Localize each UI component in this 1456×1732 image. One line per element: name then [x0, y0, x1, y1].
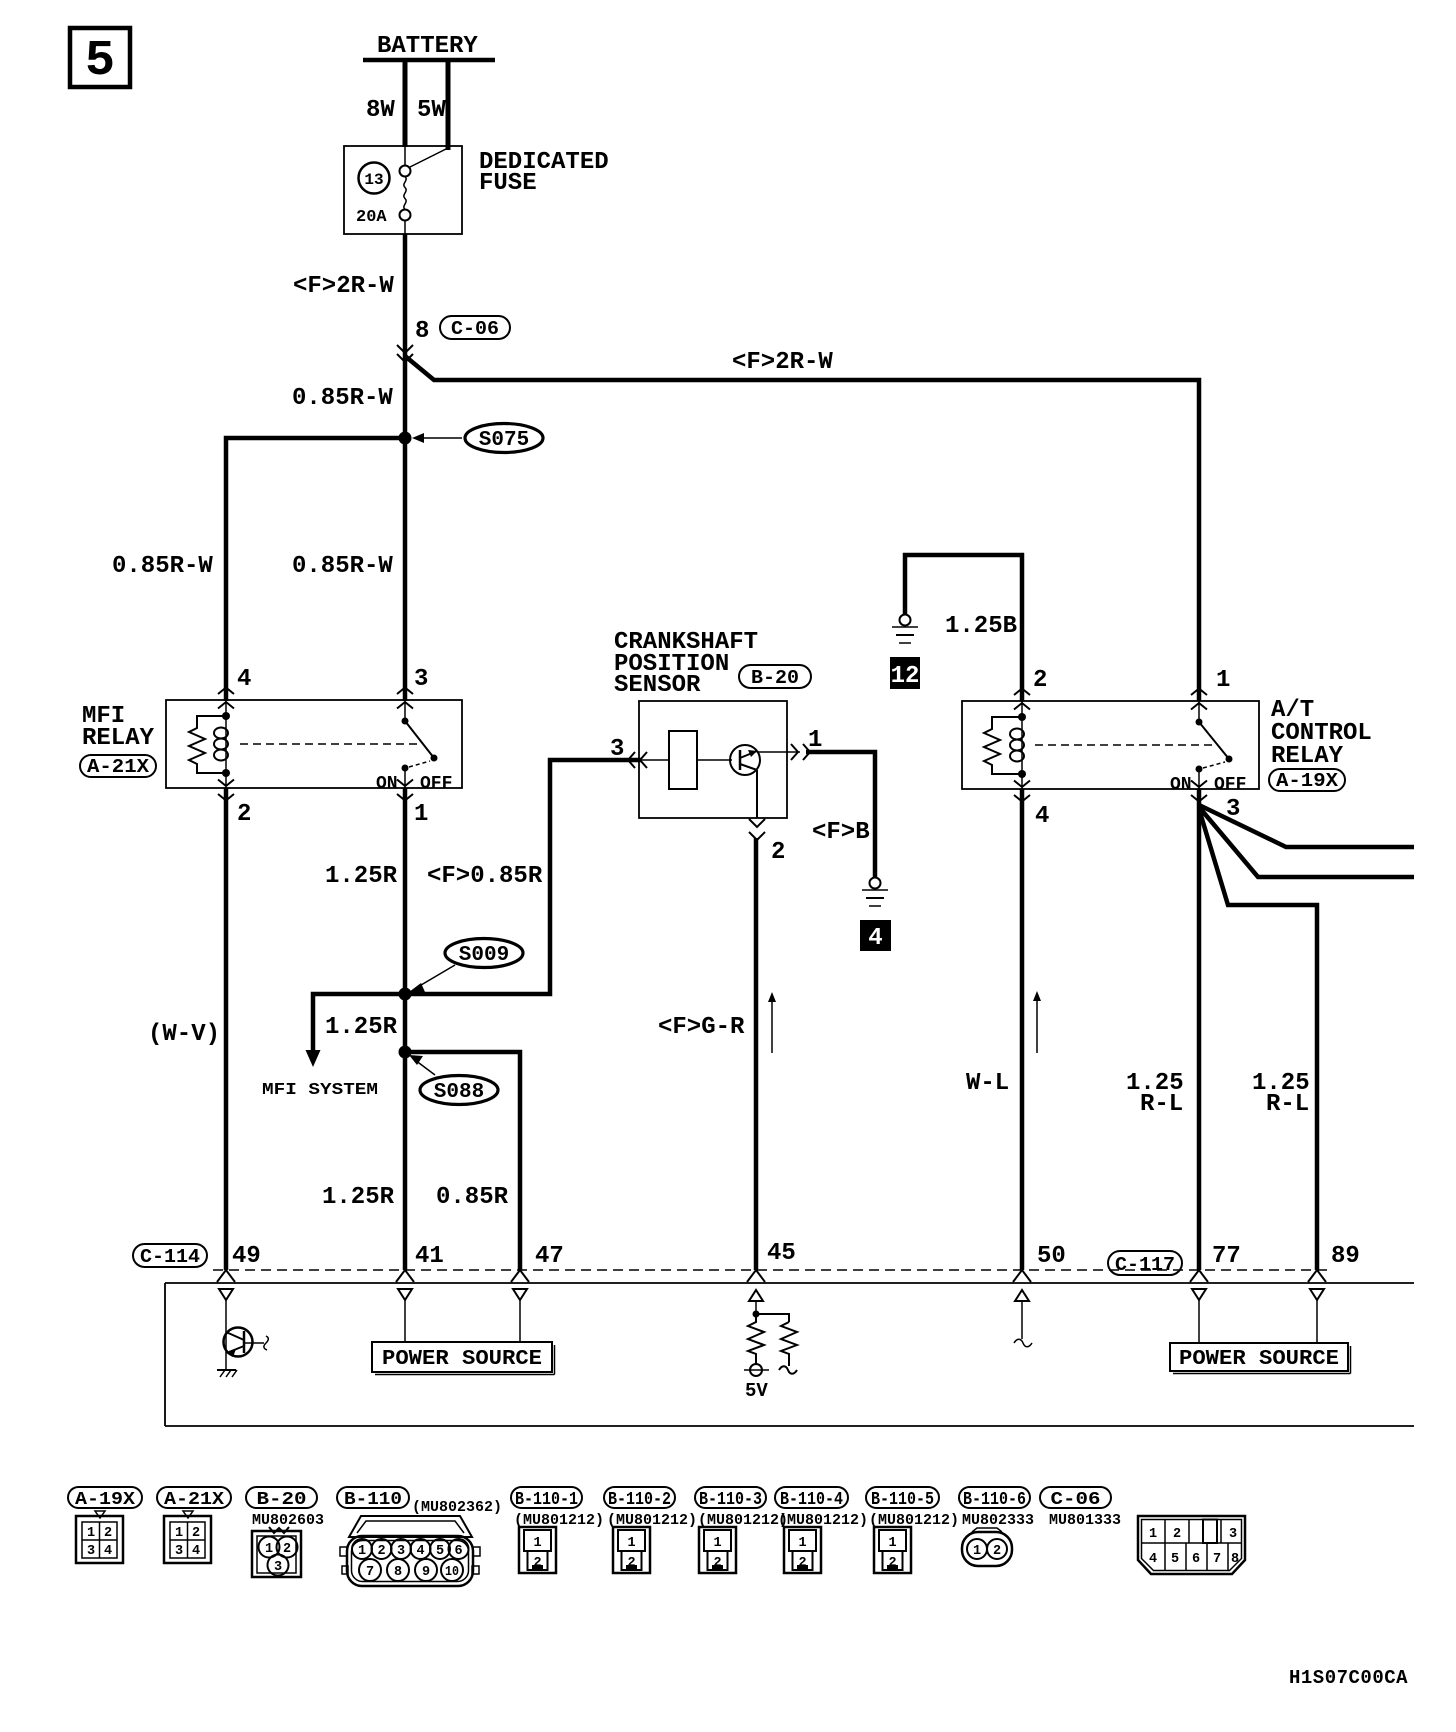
svg-text:B-110-4: B-110-4	[780, 1490, 843, 1510]
svg-text:4: 4	[868, 925, 882, 952]
ECU pin 47	[511, 1243, 564, 1282]
svg-text:3: 3	[274, 1560, 282, 1575]
wire 0.85R-W below branch	[292, 385, 393, 412]
ECU power source block left	[372, 1300, 555, 1375]
wire A/T relay pin 2 to 1.25B	[1020, 553, 1025, 701]
label MU802333	[962, 1512, 1034, 1529]
ECU pin 49	[217, 1243, 261, 1282]
signal direction arrow W-L	[1033, 991, 1041, 1053]
wire 8W from battery to fuse	[366, 60, 405, 147]
svg-text:RELAY: RELAY	[82, 725, 155, 752]
svg-text:POWER SOURCE: POWER SOURCE	[382, 1348, 542, 1371]
ECU internal pin triangle 47	[513, 1289, 527, 1300]
sheet number box 5	[70, 28, 130, 90]
svg-text:6: 6	[1192, 1552, 1200, 1567]
svg-text:MU802603: MU802603	[252, 1512, 324, 1529]
svg-text:1: 1	[175, 1526, 183, 1541]
sensor pin 1	[791, 727, 822, 760]
svg-text:C-117: C-117	[1115, 1254, 1175, 1276]
wire fanout 1.25 R-L to ECU pin 89	[1199, 809, 1317, 1270]
svg-text:3: 3	[397, 1544, 405, 1559]
svg-text:1: 1	[798, 1536, 806, 1551]
svg-text:MU802333: MU802333	[962, 1512, 1034, 1529]
connector label B-110-4	[775, 1487, 848, 1510]
svg-text:<F>B: <F>B	[812, 819, 870, 846]
A/T relay pin 1	[1191, 667, 1230, 710]
ECU pin 89	[1308, 1243, 1360, 1282]
connector label B-20	[246, 1487, 317, 1510]
label MU801212 under B-110-1	[514, 1512, 604, 1529]
drawing code H1S07C00CA	[1289, 1667, 1408, 1689]
connector drawing B-110-5 2-pin	[874, 1527, 911, 1573]
sensor pin 3	[610, 736, 669, 768]
svg-text:41: 41	[415, 1243, 444, 1270]
connector drawing A-21X 4-pin	[164, 1511, 211, 1563]
wire 5W from battery to fuse	[417, 60, 448, 150]
svg-text:89: 89	[1331, 1243, 1360, 1270]
svg-text:0.85R-W: 0.85R-W	[292, 385, 393, 412]
connector drawing B-110-6 2-pin oval	[962, 1528, 1012, 1566]
svg-text:7: 7	[366, 1565, 374, 1580]
wire fanout from pin 3 to right sheet (top)	[1199, 805, 1414, 847]
svg-text:9: 9	[422, 1565, 430, 1580]
wire MFI relay pin 1, 1.25R, to ECU pin 41	[325, 788, 543, 1270]
label MU802362	[412, 1499, 502, 1516]
label MU801333	[1049, 1512, 1121, 1529]
svg-text:B-110: B-110	[344, 1490, 402, 1510]
connector drawing B-110-2 2-pin	[613, 1527, 650, 1573]
svg-text:OFF: OFF	[1214, 775, 1246, 795]
connector label B-110-6	[959, 1487, 1030, 1510]
ECU internal pin triangle 45	[749, 1290, 763, 1301]
svg-text:50: 50	[1037, 1243, 1066, 1270]
svg-text:A-19X: A-19X	[1276, 770, 1339, 792]
connector drawing C-06 8-pin	[1138, 1516, 1245, 1574]
svg-text:A-21X: A-21X	[164, 1490, 224, 1510]
svg-text:1.25R: 1.25R	[325, 1014, 398, 1041]
connector label B-110-1	[511, 1487, 582, 1510]
svg-text:(MU802362): (MU802362)	[412, 1499, 502, 1516]
A/T relay coil	[984, 701, 1026, 789]
connector C-06 pin 8 label	[415, 316, 510, 345]
svg-text:5: 5	[1171, 1552, 1179, 1567]
svg-text:B-110-3: B-110-3	[699, 1490, 762, 1510]
wire MFI relay pin 2, W-V, to ECU pin 49	[148, 788, 226, 1270]
wire A/T relay pin 4, W-L, to ECU pin 50	[966, 789, 1022, 1270]
svg-text:0.85R: 0.85R	[436, 1184, 509, 1211]
connector drawing B-110-4 2-pin	[784, 1527, 821, 1573]
fuse box (dedicated fuse 13, 20A)	[344, 146, 609, 234]
svg-text:C-06: C-06	[451, 318, 499, 340]
sensor transistor Q1	[730, 745, 800, 818]
svg-text:7: 7	[1213, 1552, 1221, 1567]
ECU internal pin triangle 77	[1192, 1289, 1206, 1300]
MFI relay pin 1	[397, 780, 428, 829]
svg-text:<F>0.85R: <F>0.85R	[427, 863, 543, 890]
svg-text:1: 1	[1216, 667, 1230, 694]
wire A/T relay pin 3, 1.25 R-L, to ECU pin 77	[1126, 789, 1199, 1270]
MFI relay box A-21X	[80, 700, 462, 788]
svg-text:1: 1	[888, 1536, 896, 1551]
svg-text:2: 2	[192, 1526, 200, 1541]
signal direction arrow G-R	[768, 992, 776, 1053]
svg-text:POWER SOURCE: POWER SOURCE	[1179, 1348, 1339, 1371]
svg-text:1.25R: 1.25R	[322, 1184, 395, 1211]
label MU801212 under B-110-4	[778, 1512, 868, 1529]
label MU801212 under B-110-5	[869, 1512, 959, 1529]
svg-text:S075: S075	[479, 429, 529, 452]
svg-text:4: 4	[1149, 1552, 1157, 1567]
svg-text:1.25R: 1.25R	[325, 863, 398, 890]
svg-text:8: 8	[1231, 1552, 1239, 1567]
wire 0.85R-W to MFI relay pin 4	[112, 438, 405, 701]
wire to MFI SYSTEM	[262, 994, 405, 1100]
svg-text:SENSOR: SENSOR	[614, 672, 701, 699]
ECU pin 77	[1190, 1243, 1241, 1282]
wire sensor pin 2, G-R, to ECU pin 45	[658, 838, 756, 1270]
svg-text:5: 5	[436, 1544, 444, 1559]
connector drawing B-110-3 2-pin	[699, 1527, 736, 1573]
connector label A-21X	[157, 1487, 231, 1510]
connector drawing A-19X 4-pin	[76, 1511, 123, 1563]
svg-text:ON: ON	[1170, 775, 1192, 795]
label MU801212 under B-110-3	[698, 1512, 788, 1529]
svg-text:10: 10	[445, 1565, 459, 1580]
svg-text:1: 1	[973, 1544, 981, 1559]
ECU pin 45	[747, 1240, 796, 1282]
svg-text:5W: 5W	[417, 97, 446, 124]
MFI relay pin 2	[218, 780, 251, 829]
svg-text:R-L: R-L	[1140, 1091, 1183, 1118]
ECU internal pin triangle 41	[398, 1289, 412, 1300]
svg-text:12: 12	[891, 663, 920, 690]
connector label B-110	[337, 1487, 409, 1510]
svg-text:2: 2	[1033, 667, 1047, 694]
svg-text:4: 4	[1035, 803, 1049, 830]
ECU power source block right	[1170, 1300, 1351, 1374]
svg-text:<F>G-R: <F>G-R	[658, 1014, 745, 1041]
svg-text:0.85R-W: 0.85R-W	[112, 553, 213, 580]
svg-text:4: 4	[104, 1544, 112, 1559]
connector label B-110-5	[866, 1487, 939, 1510]
svg-text:49: 49	[232, 1243, 261, 1270]
svg-text:ON: ON	[376, 774, 398, 794]
svg-text:S009: S009	[459, 944, 509, 967]
svg-text:B-20: B-20	[257, 1490, 307, 1510]
svg-text:C-06: C-06	[1051, 1490, 1101, 1510]
svg-text:1: 1	[1149, 1527, 1157, 1542]
svg-text:H1S07C00CA: H1S07C00CA	[1289, 1667, 1408, 1689]
crankshaft position sensor label B-20	[614, 629, 811, 699]
ECU internal pin triangle 50	[1015, 1290, 1029, 1301]
svg-text:8: 8	[394, 1565, 402, 1580]
svg-text:3: 3	[87, 1544, 95, 1559]
svg-text:77: 77	[1212, 1243, 1241, 1270]
svg-text:A-21X: A-21X	[87, 756, 150, 778]
A/T relay pin 4	[1014, 781, 1049, 831]
svg-text:OFF: OFF	[420, 774, 452, 794]
svg-text:47: 47	[535, 1243, 564, 1270]
svg-text:4: 4	[237, 666, 251, 693]
svg-text:8: 8	[415, 318, 429, 345]
node BATTERY	[363, 33, 495, 60]
ECU pin 50	[1013, 1243, 1066, 1282]
svg-text:0.85R-W: 0.85R-W	[292, 553, 393, 580]
svg-text:3: 3	[1229, 1527, 1237, 1542]
inline connector C-06 chevrons on wire	[397, 345, 413, 362]
ECU internal lamp driver at pin 49	[217, 1300, 268, 1377]
connector label C-06	[1040, 1487, 1111, 1510]
svg-text:FUSE: FUSE	[479, 170, 537, 197]
svg-text:B-110-5: B-110-5	[871, 1490, 934, 1510]
wire 0.85R to ECU pin 47	[322, 1052, 520, 1270]
label MU802603	[252, 1512, 324, 1529]
connector label B-110-2	[604, 1487, 675, 1510]
svg-text:4: 4	[416, 1544, 424, 1559]
connector drawing B-110 10-pin	[340, 1516, 480, 1586]
ground G12	[892, 615, 918, 644]
ECU internal pin triangle 89	[1310, 1289, 1324, 1300]
wire fanout from pin 3 to right sheet (middle)	[1199, 807, 1414, 877]
splice S075 junction	[399, 424, 544, 453]
connector C-117 label	[1108, 1251, 1182, 1276]
label MU801212 under B-110-2	[607, 1512, 697, 1529]
svg-text:2: 2	[993, 1544, 1001, 1559]
wire 2R-W branch to A/T control relay pin 1	[405, 349, 1199, 701]
svg-text:2: 2	[377, 1544, 385, 1559]
svg-text:2: 2	[237, 801, 251, 828]
svg-text:S088: S088	[434, 1081, 484, 1104]
svg-text:2: 2	[283, 1542, 291, 1557]
ECU internal pin triangle 49	[219, 1289, 233, 1300]
wire sensor pin1 to ground, B	[806, 752, 875, 877]
ECU connector boundary dashed line	[213, 1269, 1330, 1271]
connector label B-110-3	[695, 1487, 766, 1510]
fuse element F13	[400, 146, 449, 234]
wire 1.25B to ground	[905, 555, 1024, 640]
wire 0.85R-W to MFI relay pin 3	[292, 438, 405, 701]
svg-text:2: 2	[771, 839, 785, 866]
svg-text:B-110-1: B-110-1	[515, 1490, 578, 1510]
svg-text:B-20: B-20	[751, 667, 799, 689]
connector label A-19X	[68, 1487, 142, 1510]
svg-text:13: 13	[364, 171, 383, 189]
sensor pin 2	[749, 819, 785, 866]
splice S088	[399, 1046, 499, 1105]
svg-text:8W: 8W	[366, 97, 395, 124]
svg-text:3: 3	[175, 1544, 183, 1559]
svg-text:1.25B: 1.25B	[945, 613, 1017, 640]
splice S009	[399, 939, 524, 1001]
A/T relay contact dashed link	[1035, 744, 1213, 746]
ECU pin 41	[396, 1243, 444, 1282]
A/T relay switch ON/OFF	[1170, 701, 1246, 795]
svg-text:(W-V): (W-V)	[148, 1021, 220, 1048]
A/T relay pin 2	[1014, 667, 1047, 710]
svg-text:B-110-6: B-110-6	[963, 1490, 1026, 1510]
connector drawing B-20 3-pin	[252, 1527, 301, 1577]
wire fuse output 2R-W	[293, 234, 405, 440]
ground reference box 4	[860, 920, 891, 952]
svg-text:1: 1	[358, 1544, 366, 1559]
svg-text:20A: 20A	[356, 208, 387, 227]
ECU box (engine control unit)	[165, 1283, 1414, 1426]
MFI relay switch ON/OFF	[376, 700, 452, 794]
svg-text:2: 2	[1173, 1527, 1181, 1542]
svg-text:3: 3	[414, 666, 428, 693]
svg-text:MFI SYSTEM: MFI SYSTEM	[262, 1081, 378, 1100]
connector C-114 label	[133, 1244, 207, 1268]
ground reference box 12	[890, 657, 920, 690]
svg-text:2: 2	[104, 1526, 112, 1541]
svg-text:1: 1	[533, 1536, 541, 1551]
MFI relay coil	[189, 700, 230, 788]
crankshaft position sensor box	[639, 701, 787, 818]
A/T relay pin 3	[1191, 781, 1240, 824]
svg-text:1: 1	[627, 1536, 635, 1551]
svg-text:C-114: C-114	[140, 1246, 200, 1268]
svg-text:<F>2R-W: <F>2R-W	[293, 273, 394, 300]
MFI relay pin 4	[218, 666, 251, 709]
MFI relay pin 3	[397, 666, 428, 709]
svg-text:1: 1	[713, 1536, 721, 1551]
svg-text:5V: 5V	[745, 1380, 768, 1402]
svg-text:45: 45	[767, 1240, 796, 1267]
svg-text:BATTERY: BATTERY	[377, 33, 478, 60]
svg-text:1: 1	[265, 1542, 273, 1557]
ECU 5V reference at pin 45	[744, 1302, 797, 1402]
svg-text:RELAY: RELAY	[1271, 743, 1344, 770]
svg-text:1: 1	[414, 801, 428, 828]
svg-text:MU801333: MU801333	[1049, 1512, 1121, 1529]
svg-text:<F>2R-W: <F>2R-W	[732, 349, 833, 376]
svg-text:5: 5	[85, 33, 115, 90]
svg-text:W-L: W-L	[966, 1070, 1009, 1097]
svg-text:B-110-2: B-110-2	[608, 1490, 671, 1510]
svg-text:A-19X: A-19X	[75, 1490, 135, 1510]
A/T control relay box A-19X	[962, 697, 1372, 792]
ECU input at pin 50	[1014, 1302, 1032, 1347]
svg-text:6: 6	[454, 1544, 462, 1559]
sensor pickup element	[669, 731, 732, 789]
wire sensor pin 3 0.85R branch	[405, 760, 641, 994]
MFI relay contact dashed link	[240, 743, 418, 745]
svg-text:1: 1	[87, 1526, 95, 1541]
ground G4	[862, 878, 888, 907]
connector drawing B-110-1 2-pin	[519, 1527, 556, 1573]
svg-text:R-L: R-L	[1266, 1091, 1309, 1118]
svg-text:4: 4	[192, 1544, 200, 1559]
